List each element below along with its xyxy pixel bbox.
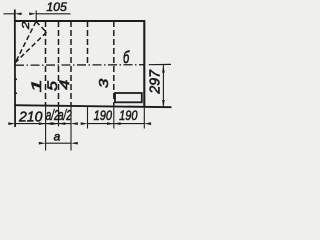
- svg-text:3: 3: [97, 78, 112, 88]
- dim 105: extension tick at x=36: [35, 11, 37, 22]
- arrow 297 bottom (pointing down): [162, 100, 165, 107]
- dim line a/2 a/2: [46, 123, 71, 125]
- svg-text:1: 1: [30, 79, 45, 92]
- fold line vertical x=58.5: [58, 21, 60, 106]
- fold line vertical (210) x=45.5: [45, 21, 47, 106]
- sheet outline: bottom edge (extended right as extension line for 297): [14, 105, 171, 107]
- svg-text:б: б: [123, 49, 130, 68]
- arrows 190 second: [107, 122, 114, 125]
- fold line vertical x=113.8: [113, 21, 115, 106]
- arrows 210: [8, 122, 15, 125]
- svg-text:a/2: a/2: [58, 107, 72, 123]
- arrows a/2 first: [39, 122, 46, 125]
- svg-text:4: 4: [58, 80, 72, 90]
- sheet outline: left edge (extended up for 105 and down for 210): [14, 10, 16, 128]
- bottom extension line x=45.5 (long, also for a): [45, 106, 47, 151]
- folded corner edge lower: [15, 32, 46, 62]
- corner fold diagonal (fold 2): [15, 22, 36, 63]
- horizontal fold chain line (b) extended right for 297: [15, 64, 145, 67]
- title block rectangle: [115, 93, 142, 102]
- sheet outline: top edge: [14, 20, 145, 22]
- svg-text:297: 297: [148, 69, 164, 95]
- speck dot lower: [15, 92, 17, 94]
- dim 105: left outside segment with arrow: [4, 13, 15, 15]
- bottom extension line x=113.8: [113, 107, 115, 129]
- fold line vertical (top half only) x=87.5: [87, 21, 89, 66]
- svg-text:190: 190: [119, 108, 137, 123]
- arrow 105 left (outside, pointing right): [15, 12, 22, 15]
- dim line a: [46, 142, 71, 144]
- sheet outline: right edge: [143, 20, 145, 107]
- dim line 210: [15, 123, 45, 125]
- svg-text:2: 2: [20, 21, 32, 30]
- dim 105: main dimension line: [36, 13, 70, 15]
- svg-text:190: 190: [94, 108, 112, 123]
- fold line vertical x=71: [70, 21, 72, 106]
- svg-text:a: a: [54, 129, 61, 143]
- dim line 190 first: [88, 123, 114, 125]
- svg-text:105: 105: [46, 0, 67, 14]
- dim line 190 second: [114, 123, 145, 125]
- dim 297: vertical dimension line: [162, 65, 164, 107]
- folded corner edge upper: [36, 22, 47, 33]
- extension of fold line b beyond right edge (for 297): [149, 63, 171, 65]
- arrow 105 right (pointing left at x=36): [29, 12, 36, 15]
- bottom extension line x=58.5: [58, 106, 60, 127]
- arrows a: [39, 142, 46, 145]
- arrows a/2 second: [52, 122, 59, 125]
- arrows 190 first: [81, 122, 88, 125]
- bottom extension line x=87.5: [87, 106, 89, 128]
- bottom extension line x=144.3: [143, 107, 145, 129]
- bottom extension line x=71 (long, also for a): [70, 106, 72, 150]
- speck dot upper: [15, 78, 17, 80]
- arrow 297 top (pointing up): [162, 66, 165, 73]
- svg-text:210: 210: [18, 109, 42, 125]
